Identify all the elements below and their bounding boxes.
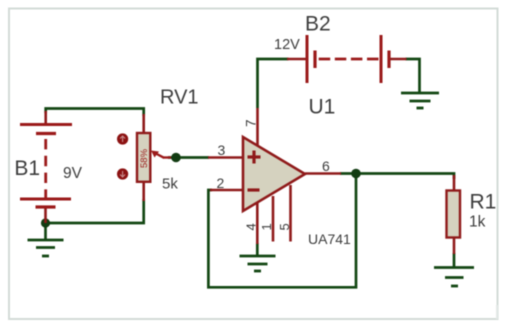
svg-text:4: 4: [243, 223, 258, 230]
svg-text:R1: R1: [470, 191, 497, 214]
svg-text:U1: U1: [309, 96, 336, 119]
svg-text:B1: B1: [14, 157, 40, 180]
svg-text:58%: 58%: [139, 148, 150, 168]
svg-text:UA741: UA741: [308, 231, 351, 247]
svg-text:1k: 1k: [469, 214, 486, 231]
svg-text:6: 6: [322, 158, 330, 174]
svg-text:5k: 5k: [162, 176, 178, 193]
svg-text:B2: B2: [305, 13, 331, 36]
svg-text:1: 1: [259, 223, 274, 230]
svg-text:5: 5: [277, 223, 292, 230]
svg-text:9V: 9V: [63, 165, 83, 182]
svg-text:3: 3: [218, 142, 226, 158]
svg-text:12V: 12V: [274, 37, 300, 53]
svg-text:RV1: RV1: [160, 87, 199, 109]
svg-text:7: 7: [244, 119, 259, 127]
svg-text:2: 2: [217, 175, 225, 191]
